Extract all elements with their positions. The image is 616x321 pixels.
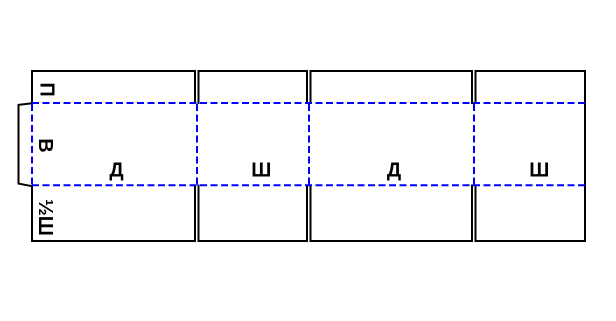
svg-text:Ш: Ш — [251, 160, 271, 182]
top slot 1 — [195, 70, 199, 104]
top cut edge (4 segments) — [31, 70, 586, 72]
svg-text:П: П — [36, 82, 58, 96]
glue flap — [19, 103, 33, 186]
svg-text:½Ш: ½Ш — [34, 199, 56, 236]
top slot 2 — [307, 70, 311, 104]
fold line horizontal lower — [32, 184, 585, 186]
right cut edge — [584, 70, 586, 242]
left cut edge upper — [31, 70, 33, 104]
fold line horizontal upper — [32, 102, 585, 104]
bottom slot 1 — [195, 185, 199, 243]
bottom cut edge (4 segments) — [31, 240, 586, 242]
bottom slot 3 — [472, 185, 476, 243]
svg-text:Д: Д — [387, 160, 401, 182]
left cut edge lower — [31, 185, 33, 242]
svg-text:Д: Д — [109, 160, 123, 182]
fold line vertical at glue flap — [31, 104, 33, 185]
fold line vertical panel 3/4 — [473, 104, 475, 185]
bottom slot 2 — [307, 185, 311, 243]
fold line vertical panel 1/2 — [196, 104, 198, 185]
fold line vertical panel 2/3 — [308, 104, 310, 185]
top slot 3 — [472, 70, 476, 104]
svg-text:В: В — [34, 138, 56, 152]
svg-text:Ш: Ш — [529, 160, 549, 182]
